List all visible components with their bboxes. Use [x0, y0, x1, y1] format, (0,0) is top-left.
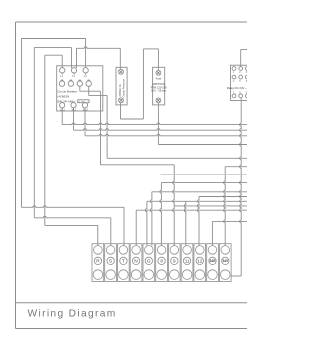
svg-text:6: 6: [246, 80, 247, 83]
svg-text:103 ~ 38 sec: 103 ~ 38 sec: [151, 89, 167, 93]
svg-text:11: 11: [185, 259, 190, 264]
svg-text:12: 12: [197, 259, 203, 264]
svg-text:8: 8: [160, 259, 163, 264]
svg-text:9: 9: [246, 92, 247, 95]
svg-text:BAL3P-AMN: BAL3P-AMN: [58, 100, 75, 104]
svg-text:9: 9: [173, 259, 176, 264]
svg-text:T: T: [122, 259, 125, 264]
svg-text:HYB63N: HYB63N: [58, 94, 70, 98]
svg-text:S: S: [109, 259, 112, 264]
svg-text:24V: 24V: [222, 259, 229, 263]
svg-text:3: 3: [246, 71, 247, 74]
svg-text:N: N: [134, 259, 137, 264]
svg-text:G: G: [147, 259, 151, 264]
svg-text:3/L2: 3/L2: [71, 108, 77, 112]
svg-text:24G: 24G: [209, 259, 216, 263]
svg-text:C T RL: C T RL: [79, 101, 87, 103]
svg-text:Relay DC 24V —: Relay DC 24V —: [227, 86, 247, 90]
svg-text:250VAC 4A: 250VAC 4A: [119, 84, 122, 97]
svg-text:5/L3: 5/L3: [83, 108, 89, 112]
svg-text:Circuit Breaker: Circuit Breaker: [58, 89, 78, 93]
svg-text:1/L1: 1/L1: [60, 108, 66, 112]
svg-text:Fuse: Fuse: [156, 76, 162, 80]
svg-text:Wiring Diagram: Wiring Diagram: [28, 309, 117, 320]
